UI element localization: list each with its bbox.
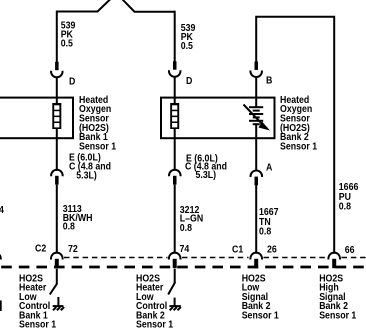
ground symbol (W2) — [169, 298, 180, 311]
wire W3 inside box below cell — [255, 124, 257, 171]
label HO2S High Signal Bank 2 Sensor 1 — [319, 272, 356, 321]
bold dashed module boundary line — [1, 266, 366, 269]
boundary terminal W2: socket dome + pin dash — [169, 253, 181, 269]
heater element symbol (Bank 2) — [170, 103, 179, 129]
svg-text:D: D — [186, 74, 193, 86]
svg-text:0.8: 0.8 — [339, 200, 351, 212]
svg-text:74: 74 — [180, 242, 190, 254]
svg-text:26: 26 — [267, 243, 277, 255]
wire W2 to boundary connector — [174, 185, 176, 254]
connector terminal E/C (W2): socket dome + pin dash — [169, 170, 181, 185]
sensing element variable-voltage cell symbol (Bank 2) — [244, 105, 271, 131]
component box HO2S Bank 1 Sensor 1 (clipped left) — [0, 98, 73, 139]
label HO2S Heater Low Control Bank 1 Sensor 1 — [19, 272, 56, 330]
svg-text:0.8: 0.8 — [259, 225, 271, 237]
svg-text:66: 66 — [345, 243, 355, 255]
wire W1 below heater to exit connector — [56, 129, 58, 171]
connector terminal B (W3): pin dash + socket cup — [250, 62, 262, 78]
wire W3 top horizontal to W4 — [256, 17, 334, 254]
label 1667 TN 0.8 (W3) — [259, 206, 279, 237]
boundary terminal W4: socket dome + pin dash — [328, 253, 340, 269]
label 3212 L-GN 0.8 (W2) — [180, 204, 204, 234]
label Heated Oxygen Sensor (HO2S) Bank 2 Sensor 1 — [280, 93, 317, 151]
svg-text:Sensor 1: Sensor 1 — [319, 309, 356, 321]
svg-text:B: B — [266, 74, 273, 86]
wire W3 to boundary connector — [255, 185, 257, 253]
svg-text:D: D — [69, 75, 76, 87]
terminal label E (6.0L) / C (4.8 and 5.3L) (W1) — [69, 151, 111, 181]
connector terminal D (W2): pin dash + socket cup — [169, 61, 181, 77]
svg-text:0.5: 0.5 — [181, 39, 193, 51]
svg-text:C1: C1 — [232, 243, 243, 255]
svg-text:Sensor 1: Sensor 1 — [79, 140, 116, 152]
boundary terminal W3: socket dome + pin dash — [250, 253, 262, 269]
label HO2S Heater Low Control Bank 2 Sensor 1 — [136, 272, 173, 330]
label 1666 PU 0.8 (W4) — [339, 181, 359, 212]
svg-text:A: A — [266, 161, 273, 173]
terminal label E (6.0L) / C (4.8 and 5.3L) (W2) — [185, 152, 227, 180]
svg-text:Sensor 1: Sensor 1 — [242, 309, 279, 321]
label HO2S Low Signal Bank 2 Sensor 1 — [242, 272, 279, 321]
svg-text:Sensor 1: Sensor 1 — [19, 318, 56, 330]
boundary connector fragment at left edge — [0, 253, 1, 260]
wire W1 top horizontal from splice — [57, 0, 111, 12]
label Heated Oxygen Sensor (HO2S) Bank 1 Sensor 1 — [79, 93, 116, 151]
svg-text:5.3L): 5.3L) — [76, 169, 97, 181]
wire W2 below connector D — [174, 77, 176, 104]
ground symbol (W1) — [53, 297, 64, 310]
svg-text:0.8: 0.8 — [63, 220, 75, 232]
svg-text:0.5: 0.5 — [61, 37, 73, 49]
svg-text:Sensor 1: Sensor 1 — [280, 140, 317, 152]
label 539 PK 0.5 (W1) — [61, 19, 76, 48]
svg-text:72: 72 — [68, 242, 78, 254]
svg-text:0.8: 0.8 — [180, 222, 192, 234]
connector terminal A (W3): socket dome + pin dash — [251, 170, 263, 185]
label 539 PK 0.5 (W2) — [181, 22, 196, 51]
wire W1 below boundary with off-page diagonal — [50, 269, 57, 295]
connector terminal D (W1): pin dash + socket cup — [51, 62, 63, 78]
svg-text:Sensor 1: Sensor 1 — [136, 318, 173, 330]
wire W2 top horizontal from splice — [122, 0, 175, 12]
wire W1 to boundary connector — [56, 185, 58, 254]
wire W2 vertical upper — [174, 11, 176, 62]
wire W1 vertical upper — [56, 11, 58, 63]
wire W2 below heater to exit connector — [174, 129, 176, 171]
wire W2 below boundary with off-page diagonal — [168, 269, 175, 295]
label 3113 BK/WH 0.8 (W1) — [63, 203, 93, 232]
wire W3 below connector B — [255, 77, 257, 107]
svg-text:5.3L): 5.3L) — [196, 168, 217, 180]
heater element symbol (Bank 1) — [52, 103, 61, 129]
svg-text:C2: C2 — [35, 242, 46, 254]
text fragment at left edge bottom — [0, 300, 2, 311]
boundary terminal W1: socket dome + pin dash — [51, 253, 63, 269]
component box HO2S Bank 2 Sensor 1 — [161, 98, 275, 139]
connector terminal E/C (W1): socket dome + pin dash — [51, 170, 63, 185]
thin dashed connector line — [64, 257, 366, 259]
wire W1 below connector D — [56, 77, 58, 104]
